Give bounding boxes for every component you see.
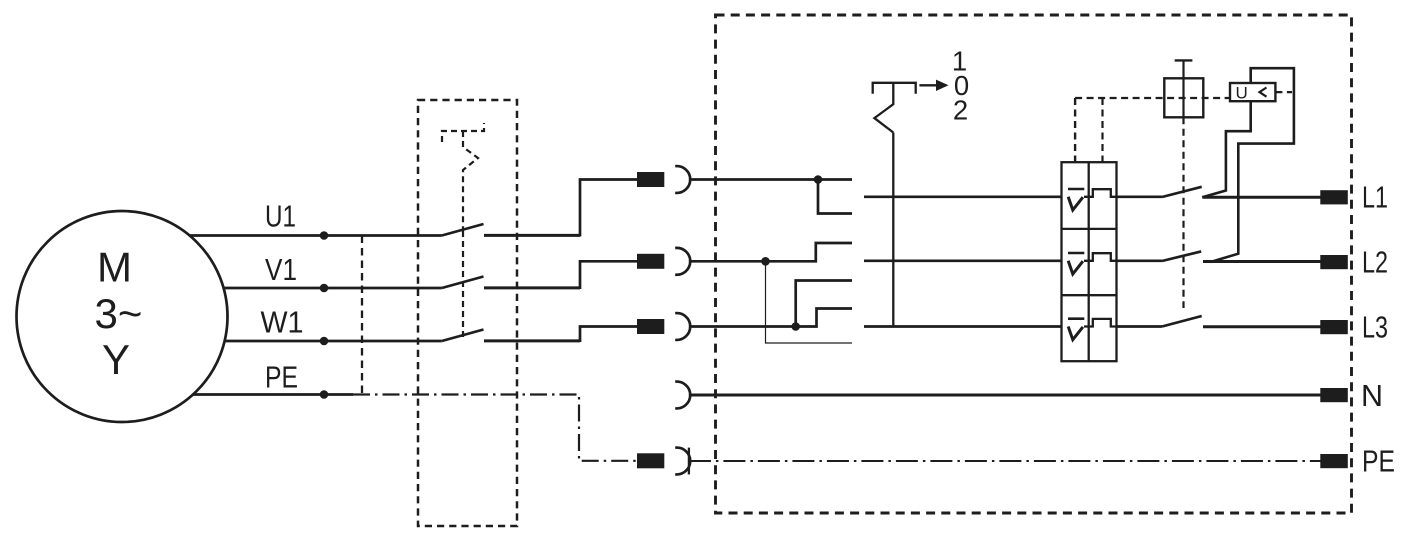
- control dashed horizontal: [1075, 97, 1230, 99]
- cam switch pole2 line: [864, 259, 1062, 262]
- label U1: [261, 200, 304, 395]
- wire row3 upper branch: [796, 281, 852, 327]
- wire contact1 to L1 terminal: [1202, 196, 1320, 199]
- wire PE dash-dot to corner and down: [353, 395, 637, 461]
- wire row1 lower branch: [818, 180, 852, 214]
- undervoltage relay U< box: [1230, 83, 1275, 101]
- motor label M 3~ Y: [95, 244, 143, 384]
- terminal N: [1320, 388, 1348, 402]
- wire pole3 out: [484, 340, 580, 343]
- disconnect switch dashed enclosure: [418, 100, 517, 526]
- contact3 blade: [1162, 316, 1202, 327]
- motor M 3~ circle: [17, 211, 228, 422]
- relay2 V-bar symbol: [1068, 253, 1084, 274]
- relay1 V-bar symbol: [1068, 189, 1084, 210]
- wire L3 into box: [689, 309, 852, 327]
- switch contact blade pole3: [442, 330, 484, 342]
- svg-text:U1: U1: [265, 200, 296, 234]
- trip linkage dashed vertical: [1182, 117, 1184, 308]
- cam switch pole1 line: [864, 195, 1062, 198]
- svg-text:PE: PE: [265, 361, 298, 395]
- wire PE motor solid part: [193, 393, 353, 396]
- node dot row1: [814, 175, 823, 184]
- cam position labels 1 0 2: [952, 46, 969, 126]
- wire V1 switch to connector: [484, 261, 637, 287]
- svg-text:3~: 3~: [95, 290, 143, 337]
- node dot V1: [320, 284, 329, 293]
- cam switch pole3 line: [864, 325, 1062, 328]
- wire contact3 to L3 terminal: [1203, 325, 1321, 328]
- contact1 blade: [1162, 187, 1202, 197]
- wire N: [689, 394, 1321, 397]
- svg-text:Y: Y: [102, 336, 130, 383]
- connector socket W1: [675, 313, 690, 340]
- wire row2 cross branch (thin): [766, 261, 853, 343]
- wire contact2 to L2 terminal: [1203, 260, 1321, 263]
- wire pole1 out: [484, 234, 580, 237]
- terminal L2: [1320, 255, 1348, 269]
- switch contact blade pole2: [442, 277, 484, 289]
- undervoltage wiring lower loop: [1202, 101, 1250, 197]
- relay cell divider 2: [1062, 294, 1117, 296]
- connector PE pin bar: [688, 448, 690, 475]
- connector socket V1: [675, 248, 690, 275]
- wire U1 switch to connector: [484, 180, 637, 236]
- cable boundary dashed vertical: [361, 236, 363, 395]
- cam switch arrow: [919, 84, 938, 86]
- wire relay2 to contact2: [1117, 259, 1163, 262]
- labels L1 L2 L3 N PE: [1361, 181, 1395, 479]
- trip device top bar: [1175, 59, 1193, 61]
- cam switch shaft: [892, 133, 894, 327]
- terminal L3: [1320, 320, 1348, 334]
- relay1 heater bump: [1084, 189, 1117, 197]
- undervoltage stub dash: [1275, 91, 1292, 93]
- terminal L1: [1320, 190, 1348, 204]
- connector socket U1: [675, 166, 690, 193]
- contact2 blade: [1162, 251, 1201, 261]
- undervoltage wiring upper loop: [1211, 68, 1294, 262]
- control dashed vertical left: [1074, 98, 1076, 162]
- svg-text:2: 2: [953, 95, 968, 126]
- cam switch actuator zigzag: [874, 83, 893, 133]
- wire L1 into box: [689, 178, 852, 181]
- switch contact blade pole1: [442, 224, 484, 236]
- svg-text:PE: PE: [1362, 445, 1395, 479]
- switch linkage dashed: [462, 231, 464, 341]
- wire L2 into box: [689, 243, 852, 261]
- svg-text:L1: L1: [1362, 181, 1388, 215]
- relay block vertical divider: [1088, 162, 1090, 361]
- svg-text:U: U: [1236, 84, 1248, 103]
- svg-text:L2: L2: [1362, 246, 1388, 280]
- node dot row2: [761, 257, 770, 266]
- wire W1 switch to connector: [484, 327, 637, 341]
- relay cell divider 1: [1062, 228, 1117, 230]
- node dot W1: [320, 337, 329, 346]
- wire V1 motor to switch: [224, 287, 442, 290]
- connector socket N: [675, 382, 690, 409]
- appliance dashed enclosure: [716, 15, 1352, 513]
- connector ferrite PE: [637, 453, 664, 468]
- cam switch actuator bracket: [873, 83, 916, 94]
- wire relay3 to contact3: [1117, 325, 1163, 328]
- connector ferrite U1: [637, 172, 664, 187]
- svg-text:N: N: [1361, 379, 1383, 413]
- connector ferrite V1: [637, 254, 664, 269]
- terminal PE: [1320, 454, 1348, 468]
- control dashed vertical right: [1101, 98, 1103, 162]
- node dot U1: [320, 231, 329, 240]
- svg-text:M: M: [97, 244, 132, 291]
- overload relay block outline: [1062, 162, 1117, 361]
- wire U1 motor to switch: [190, 234, 442, 237]
- node dot row3: [791, 322, 800, 331]
- wire W1 motor to switch: [224, 340, 442, 343]
- svg-text:W1: W1: [261, 306, 304, 340]
- trip device vertical: [1182, 60, 1184, 117]
- wire pole2 out: [484, 287, 580, 290]
- svg-text:V1: V1: [265, 253, 297, 287]
- wire PE dash-dot: [689, 460, 1321, 462]
- wire relay1 to contact1: [1117, 195, 1163, 198]
- relay3 heater bump: [1084, 319, 1117, 327]
- relay3 V-bar symbol: [1068, 319, 1084, 340]
- switch actuator (dashed bracket + zigzag): [442, 123, 484, 231]
- svg-text:L3: L3: [1362, 311, 1388, 345]
- relay2 heater bump: [1084, 253, 1117, 261]
- connector ferrite W1: [637, 319, 664, 334]
- trip device square: [1164, 78, 1203, 117]
- connector socket PE: [675, 448, 690, 475]
- node dot PE: [320, 390, 329, 399]
